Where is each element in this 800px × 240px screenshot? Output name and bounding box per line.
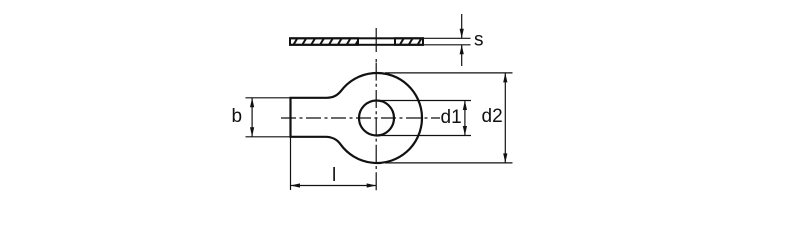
section centerline (375, 28, 377, 52)
vertical centerline (375, 63, 377, 191)
svg-text:b: b (232, 106, 243, 127)
s dimension arrow down (460, 29, 464, 39)
d1 arrow up (463, 101, 467, 111)
l extension line left (tab edge extended) (290, 137, 292, 190)
svg-text:l: l (332, 165, 336, 186)
section view outline (top) (290, 38, 423, 45)
l arrow left (291, 183, 301, 187)
horizontal centerline (281, 117, 440, 119)
d2 arrow down (503, 153, 507, 163)
b arrow up (250, 98, 254, 108)
l dimension line (291, 185, 377, 187)
d2 extension line top (385, 72, 513, 74)
d1 arrow down (463, 126, 467, 136)
s dimension lower stem (461, 45, 463, 66)
d1 extension line top (380, 100, 471, 102)
b arrow down (250, 127, 254, 137)
d2 extension line bottom (385, 162, 513, 164)
s dimension upper stem (461, 14, 463, 38)
s extension line bottom (423, 44, 471, 46)
d1 dimension line (464, 101, 466, 136)
d2 arrow up (503, 73, 507, 83)
b extension line top (246, 97, 291, 99)
hole circle d1 (359, 101, 394, 136)
section hatched right segment (right ring) (395, 38, 423, 45)
d2 dimension line (504, 73, 506, 163)
section hatched left segment (tab + left ring) (290, 38, 358, 45)
washer outline (front view: tab + outer circle with fillets) (291, 73, 422, 163)
b dimension line (251, 98, 253, 137)
b extension line bottom (246, 136, 291, 138)
svg-text:d1: d1 (441, 107, 462, 128)
svg-text:d2: d2 (482, 106, 503, 127)
d1 extension line bottom (380, 135, 471, 137)
s extension line top (423, 37, 471, 39)
s dimension arrow up (460, 45, 464, 55)
svg-text:s: s (474, 30, 484, 51)
section centerline dot (375, 59, 377, 62)
l arrow right (367, 183, 377, 187)
